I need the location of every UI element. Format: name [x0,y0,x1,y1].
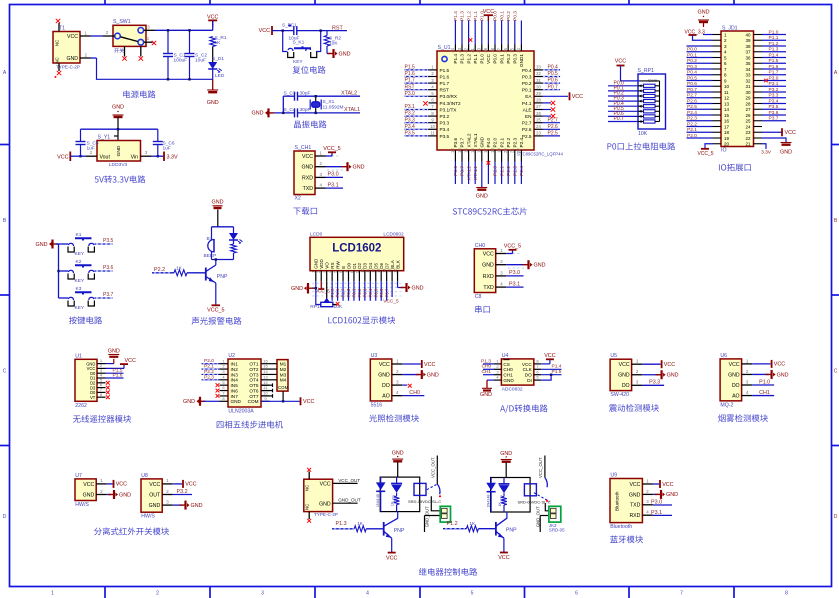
svg-text:40: 40 [477,47,482,52]
svg-text:C: C [3,369,7,375]
svg-text:P3.6: P3.6 [453,137,458,147]
svg-text:P3.1/TX: P3.1/TX [440,107,458,112]
svg-text:P2.2: P2.2 [687,121,697,127]
LED S_D1 [208,62,217,69]
svg-text:P0.7: P0.7 [687,87,697,93]
svg-text:33: 33 [745,73,751,78]
svg-text:3.3V: 3.3V [761,150,772,156]
svg-text:14: 14 [263,369,268,374]
U8 pin 2 net P3.2 [162,494,173,496]
stepper no-connect pins 5-7 [216,383,220,387]
relay1 terminal wires [431,496,442,511]
svg-text:GND: GND [728,372,740,378]
pot left lead wire [316,288,321,304]
io net P3.0 red mark [764,79,768,83]
adc pin4 to GND [487,379,494,381]
svg-text:P2.3: P2.3 [204,374,214,380]
caption reset circuit [292,66,300,74]
svg-text:4: 4 [366,591,369,597]
svg-text:SRD-05: SRD-05 [549,528,565,533]
svg-text:24: 24 [745,124,751,129]
svg-text:11.0592M: 11.0592M [323,105,344,111]
caption stepper [217,421,224,428]
svg-text:Com: Com [648,78,658,83]
svg-text:34: 34 [516,47,521,52]
svg-text:41: 41 [470,47,475,52]
svg-text:P3.5: P3.5 [103,238,114,244]
svg-text:25: 25 [745,119,751,124]
svg-text:SW-420: SW-420 [610,392,629,398]
svg-text:P1.3: P1.3 [460,11,466,21]
svg-text:U2: U2 [228,353,235,359]
svg-text:100uF: 100uF [174,58,188,64]
io pin20 wire to VCC_5 [705,144,713,149]
svg-text:P3.3: P3.3 [769,93,779,99]
mcu right wires nets P2.7-P2.5 [543,122,561,124]
border column ticks [104,587,106,598]
svg-text:LCD0602: LCD0602 [383,232,404,238]
svg-text:P0.4: P0.4 [548,65,559,71]
svg-text:1K: 1K [469,521,476,526]
svg-text:U8: U8 [141,473,148,479]
svg-text:AO: AO [382,394,390,400]
wires stepper outputs to motor [270,363,278,365]
svg-text:GND: GND [149,503,161,509]
wire crystal left vertical [282,96,284,113]
wire reset right branch [316,31,321,52]
svg-text:IN6: IN6 [231,388,239,393]
svg-text:42: 42 [463,47,468,52]
svg-text:VDD: VDD [319,258,324,268]
adc pin6 net P1.5 [541,374,561,376]
wire VCC to resistor network [621,66,641,81]
svg-text:20: 20 [503,148,508,153]
svg-text:D3: D3 [363,262,368,268]
svg-text:P0.1: P0.1 [687,52,697,58]
svg-text:P0.3: P0.3 [687,64,697,70]
svg-text:TXD: TXD [483,285,494,291]
svg-text:P0.6: P0.6 [548,78,559,84]
svg-text:GND: GND [112,105,124,111]
svg-text:P0.2: P0.2 [522,81,532,86]
T1 pin 1 VCC [80,35,91,37]
svg-text:LCD0: LCD0 [310,232,323,238]
svg-text:E: E [341,266,346,269]
svg-text:VCC_5: VCC_5 [315,289,330,294]
io right wires nets P1.x P3.x [762,34,786,36]
svg-text:GND: GND [66,56,78,62]
svg-text:P1.1: P1.1 [769,35,779,41]
svg-text:VCC: VCC [116,482,127,488]
switch pin 1 right no-connect [144,41,153,43]
mcu top VCC power [487,16,489,45]
svg-text:XTAL2: XTAL2 [341,91,357,97]
svg-text:P1.6: P1.6 [440,74,450,79]
svg-text:DO: DO [732,383,740,389]
svg-text:29: 29 [745,96,751,101]
wire crystal bottom rail [274,112,295,114]
svg-text:P0.6: P0.6 [687,81,697,87]
svg-text:P3.7: P3.7 [103,292,114,298]
svg-text:GND: GND [777,372,789,378]
svg-text:P3.1: P3.1 [509,281,520,287]
svg-text:15: 15 [263,364,268,369]
ic U6 MQ-2 body [720,359,742,401]
svg-text:VCC: VCC [302,154,313,160]
svg-text:S_X1: S_X1 [323,99,335,105]
svg-text:21: 21 [745,142,751,147]
svg-text:OUT: OUT [149,492,161,498]
capacitor S_C1 100uF [167,30,169,53]
svg-text:ALE: ALE [523,107,532,112]
mcu left wires and net labels [404,69,429,71]
svg-text:17: 17 [724,124,730,129]
svg-text:C8: C8 [475,294,482,300]
svg-text:P3.6: P3.6 [103,265,114,271]
svg-text:VCC: VCC [483,251,494,257]
motor connector M1-M4 COM [277,360,288,392]
ldo pin 2 Vout [86,155,97,157]
transistor PNP relay [495,522,497,536]
svg-text:Bluetooth: Bluetooth [610,524,632,530]
svg-text:P2.6: P2.6 [548,124,559,130]
svg-text:21: 21 [510,148,515,153]
rp1 wire net P0.5 [608,110,638,112]
svg-text:GND: GND [500,451,512,457]
mcu right wires nets P0.4-P0.7 [543,69,561,71]
io left pins [713,34,722,36]
svg-text:P1.4: P1.4 [453,54,458,64]
capacitor S_C5 1uF [80,129,82,141]
svg-text:VCC: VCC [67,34,78,40]
svg-text:31: 31 [745,84,751,89]
svg-text:P3.0: P3.0 [328,172,339,178]
wire emitter to VCC_5 [215,283,217,306]
svg-text:30pF: 30pF [300,90,311,96]
svg-text:ULN2003A: ULN2003A [228,409,254,415]
caption U6 [718,414,725,422]
svg-text:P3.1: P3.1 [405,104,416,110]
svg-text:16: 16 [392,268,397,273]
remote pin1 wire to GND above [106,363,114,365]
svg-text:S_CH1: S_CH1 [295,145,312,151]
wire keys common vertical [56,243,59,245]
svg-text:30: 30 [536,84,541,89]
diode 1N4148 relay [490,478,492,483]
adc pin2 net CH0 [483,368,494,370]
wire relay2 collector [506,512,508,519]
svg-text:P0.4: P0.4 [522,68,532,73]
svg-text:VCC: VCC [664,362,675,368]
caption ir switch [94,528,102,536]
relay connector top no-connect [308,472,310,480]
svg-text:OT2: OT2 [249,367,259,372]
svg-text:P1.2: P1.2 [466,54,471,64]
U8 pin 1 to VCC [162,483,173,485]
svg-text:PNP: PNP [217,274,228,280]
svg-text:39: 39 [745,38,751,43]
svg-text:P3.2: P3.2 [769,87,779,93]
svg-text:S_Y1: S_Y1 [98,135,111,141]
svg-text:P0.7: P0.7 [548,84,559,90]
lcd pins [315,271,317,282]
svg-text:P1.0: P1.0 [480,54,485,64]
svg-text:GND: GND [780,150,792,156]
svg-text:VCC: VCC [379,362,390,368]
svg-text:GND: GND [503,378,514,383]
adc pin7 net P1.4 [541,368,561,370]
rp1 wire net P0.4 [608,105,638,107]
svg-text:P3.0/RX: P3.0/RX [440,94,458,99]
remote pin2 wire to VCC [106,367,125,369]
svg-text:13: 13 [263,374,268,379]
svg-text:P2.0: P2.0 [493,166,499,176]
svg-text:P1.7: P1.7 [405,78,416,84]
svg-text:GND: GND [392,451,404,457]
svg-text:VCC: VCC [386,555,397,561]
svg-text:1: 1 [51,591,54,597]
svg-text:Bluetooth: Bluetooth [615,491,620,511]
svg-text:EN: EN [525,114,532,119]
svg-text:P3.0: P3.0 [651,499,662,505]
svg-text:15: 15 [724,113,730,118]
stepper unused outputs [261,384,273,386]
remote pins [97,363,106,365]
svg-text:1N4148: 1N4148 [486,495,490,508]
bluetooth pin2 to GND [653,493,658,495]
switch pin 2 left [103,35,115,37]
svg-text:S_C3: S_C3 [284,90,296,96]
T1 pin 2 GND [80,57,91,59]
svg-text:GND_OUT: GND_OUT [425,506,430,527]
svg-text:P0.1: P0.1 [499,54,504,64]
adc right pins [534,363,541,365]
rp1 common bus [640,80,660,82]
svg-text:CH1: CH1 [503,373,513,378]
svg-text:10K: 10K [329,41,338,47]
lcd pin1 wire to GND left [315,281,317,288]
svg-text:3.3V: 3.3V [167,154,178,160]
resistor S_R1 1K [210,37,216,47]
svg-text:VCC: VCC [83,482,94,488]
svg-text:XTAL1: XTAL1 [473,133,478,147]
svg-text:CLK: CLK [523,367,533,372]
svg-text:M2: M2 [280,367,287,372]
svg-text:P3.6: P3.6 [453,166,459,176]
svg-text:P2.7: P2.7 [687,93,697,99]
connector T1 TYPE-C-2P [53,32,80,64]
power VCC [212,20,214,26]
svg-text:VCC_OUT: VCC_OUT [431,457,436,478]
relay1 switch contact arc [437,484,440,494]
svg-text:VCC: VCC [486,53,491,64]
svg-text:22: 22 [516,148,521,153]
svg-text:VCC: VCC [259,28,270,34]
adc pin5 DI tied to DO [541,375,551,380]
rp1 wire net P0.3 [608,100,638,102]
svg-text:P2.7: P2.7 [341,288,346,297]
svg-text:GND: GND [231,399,242,404]
svg-text:P0.1: P0.1 [499,11,505,21]
svg-text:P0.3: P0.3 [522,74,532,79]
svg-text:S_SW1: S_SW1 [113,19,131,25]
wire relay base with resistor 1K [332,528,354,530]
svg-text:GND: GND [183,399,195,405]
svg-text:S_K1: S_K1 [293,40,305,46]
serial pin 1 to VCC_5 [496,253,507,255]
svg-text:P4.0: P4.0 [486,137,491,147]
rp1 resistor 1 [644,84,656,87]
mcu U1 STC89C52RC body [437,51,534,150]
svg-text:OT6: OT6 [249,388,259,393]
relay1 switch arm dashed [427,484,437,489]
svg-text:VCC: VCC [774,362,785,368]
svg-text:P3.3: P3.3 [649,380,660,386]
mcu bottom ground GND [481,162,483,188]
wire reset left branch [283,31,288,52]
svg-text:VCC: VCC [785,130,796,136]
svg-text:P3.2: P3.2 [405,111,416,117]
ic U9 Bluetooth [610,479,642,523]
svg-text:P3.5: P3.5 [440,134,450,139]
svg-text:P0.4: P0.4 [687,70,697,76]
bluetooth pin3 net P3.0 [653,504,672,506]
svg-text:T1: T1 [59,26,65,32]
svg-text:Vout: Vout [100,155,111,161]
rp1 resistor 4 [644,100,656,103]
svg-text:12: 12 [450,148,455,153]
svg-text:KEY: KEY [75,251,85,257]
svg-text:P1.5: P1.5 [405,65,416,71]
serial pin 2 to GND [496,264,507,266]
mcu bottom wires and rotated nets [454,162,456,185]
ground GND power module [212,79,214,89]
svg-text:VCC: VCC [619,362,630,368]
relay coil [414,483,426,495]
svg-text:GND: GND [480,392,492,398]
svg-text:P0.0: P0.0 [687,47,697,53]
svg-text:19: 19 [496,148,501,153]
svg-text:D4: D4 [368,262,373,268]
svg-text:BLK: BLK [395,260,400,269]
svg-text:10: 10 [724,84,730,89]
relay2 switch arm dashed [534,493,550,502]
svg-text:P2.2: P2.2 [506,166,512,176]
svg-text:P1.4: P1.4 [769,52,779,58]
rp1 wire net P0.2 [608,95,638,97]
svg-text:14: 14 [724,107,730,112]
svg-text:P1.3: P1.3 [336,521,347,527]
wire reset top rail [272,30,294,32]
svg-text:COM: COM [248,399,259,404]
svg-text:P3.0: P3.0 [405,91,416,97]
svg-text:GND: GND [476,194,488,200]
io pin23 wire to VCC [762,131,782,133]
svg-text:26: 26 [745,113,751,118]
wire T1-GND down to ground rail [91,57,97,59]
svg-text:P3.7: P3.7 [460,137,465,147]
svg-text:VCC: VCC [629,482,640,488]
svg-text:BLA: BLA [390,260,395,269]
wire alarm bottom node [212,259,234,261]
adc left pins [494,363,501,365]
mcu top wires and rotated nets [454,21,456,45]
stepper right pins [261,363,270,365]
svg-text:10uF: 10uF [195,58,206,64]
svg-text:OT7: OT7 [249,394,259,399]
svg-text:LCD1602: LCD1602 [332,243,381,255]
svg-text:16: 16 [724,119,730,124]
caption ldo [95,176,99,182]
lcd pin3 wire to potentiometer wiper [326,281,328,296]
svg-text:P3.3: P3.3 [440,121,450,126]
svg-text:P1.5: P1.5 [552,369,562,375]
svg-text:VCC_5: VCC_5 [383,298,399,304]
power 3.3V ldo right [152,155,165,157]
switch pin 3 top-right [144,29,155,31]
svg-text:P3.1: P3.1 [328,182,339,188]
svg-text:P4.1: P4.1 [522,101,532,106]
svg-text:DO: DO [525,373,532,378]
relay1 switch fixed wire VCC_OUT [436,456,438,485]
svg-text:P2.6: P2.6 [522,127,532,132]
svg-text:TXD: TXD [303,186,314,192]
connector TYPE-C-2P relay power [304,479,333,511]
svg-text:K3: K3 [76,286,82,292]
caption U3 [369,414,377,422]
svg-text:EA: EA [525,94,532,99]
svg-text:1K: 1K [390,501,394,506]
lcd grid dashes [312,282,402,284]
LED alarm [233,227,235,233]
svg-text:VCC: VCC [729,362,740,368]
svg-text:31: 31 [536,78,541,83]
svg-text:P1.0: P1.0 [759,379,770,385]
resistor 1K relay [503,493,505,496]
svg-text:P2.3: P2.3 [513,166,519,176]
svg-text:RXD: RXD [302,175,313,181]
resistor S_R2 10K [326,31,328,36]
transistor PNP alarm [205,268,207,281]
svg-text:GND: GND [83,492,95,498]
svg-text:GND_OUT: GND_OUT [338,498,361,503]
io pin22 wire to GND [762,138,786,142]
wire relay1 collector [397,512,399,519]
svg-text:P3.5: P3.5 [769,104,779,110]
svg-text:P1.7: P1.7 [440,81,450,86]
potentiometer RP1 10K [324,298,331,303]
svg-text:GND: GND [36,242,48,248]
svg-text:SRD-05VDC-SL-C: SRD-05VDC-SL-C [518,500,551,505]
svg-text:26: 26 [536,111,541,116]
svg-text:15: 15 [470,148,475,153]
download pin 4 net P3.1 [315,187,326,189]
svg-text:P3.0: P3.0 [769,75,779,81]
svg-text:PNP: PNP [506,528,517,534]
svg-text:IO: IO [721,148,726,154]
svg-text:35: 35 [510,47,515,52]
lcd module body LCD1602 [310,237,404,270]
svg-text:VCC_5: VCC_5 [504,243,521,249]
svg-text:P3.4: P3.4 [769,98,779,104]
lcd data pin wires [331,281,333,301]
svg-text:P1.3: P1.3 [460,54,465,64]
svg-text:GND: GND [667,373,679,379]
svg-text:P2.5: P2.5 [548,131,559,137]
pot right lead no-connect [333,304,337,306]
svg-text:30pF: 30pF [300,107,311,113]
ic U8 HW/S infrared receiver [141,479,162,512]
